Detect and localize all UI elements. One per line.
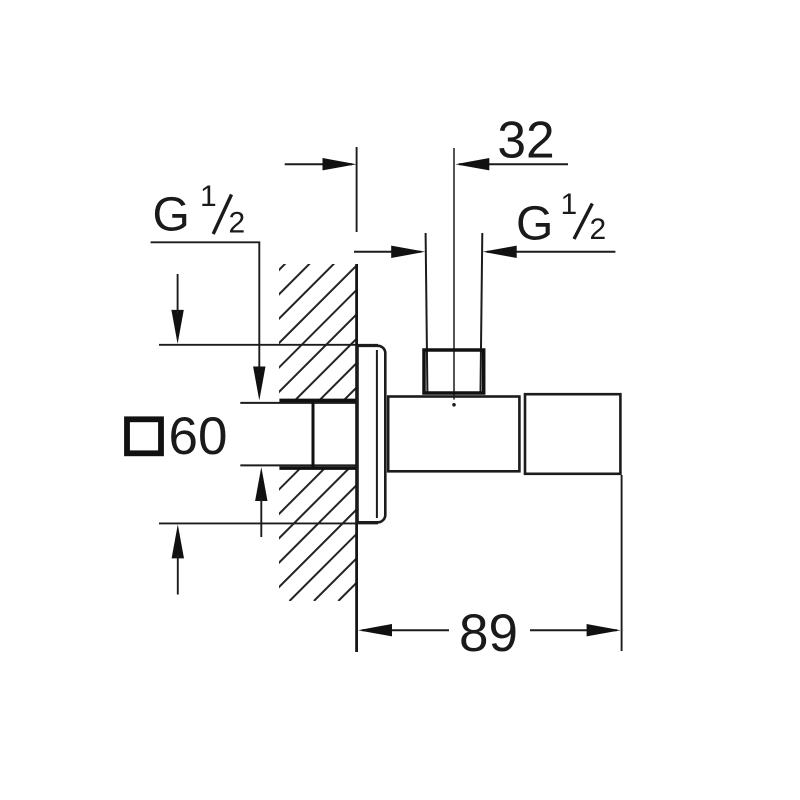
dimension 89 left arrow [358,624,392,636]
dimension 60 bottom arrow (up) [172,524,184,558]
wall opening bottom edge [279,467,357,470]
dimension 60 top arrow shaft [177,274,179,313]
square symbol [127,419,161,453]
escutcheon inner contour line [376,350,378,518]
wall opening top edge [279,399,357,402]
dimension 89 right arrow [587,624,621,636]
dimension 60 bottom arrow shaft [177,555,179,595]
wall hatch [0,263,676,601]
dimension 89 line left part [362,629,449,631]
dimension G1/2 right left arrow [391,246,425,258]
svg-text:32: 32 [497,111,554,169]
supply pipe bottom edge [240,464,356,466]
wall face line [355,264,358,652]
union nut [424,350,484,393]
dimension 60 extension line bottom [159,522,378,524]
G1/2 left label slash [213,195,231,235]
inlet connector left edge [312,401,315,467]
G1/2 left leader arrow (down) [253,367,265,401]
inlet pipe left edge [426,233,428,392]
dimension 32 right arrow [455,158,489,170]
svg-text:89: 89 [459,604,518,663]
outlet piece [525,394,620,474]
svg-text:G: G [516,197,553,250]
G1/2 left leader horizontal [151,241,261,243]
dimension 32 extension line [356,147,358,232]
dimension 89 line right part [530,629,617,631]
dimension G1/2 right line right part [487,251,615,253]
svg-text:2: 2 [229,207,246,240]
svg-text:1: 1 [200,180,217,213]
G1/2 left leader vertical [258,242,260,370]
svg-text:G: G [153,189,190,242]
valve body [388,397,519,472]
svg-text:1: 1 [561,188,578,221]
escutcheon [358,346,386,523]
pipe bottom arrow (up) [255,467,267,501]
dimension G1/2 right line left part [354,251,421,253]
svg-text:60: 60 [169,407,228,466]
supply pipe top edge [240,402,356,404]
inlet pipe right edge [481,233,483,392]
dimension 32 left arrow [323,158,357,170]
dimension 32 left line [285,163,352,165]
dimension 89 extension line right [621,475,623,651]
dimension 60 extension line top [159,344,378,346]
dimension 60 top arrow (down) [171,310,183,344]
svg-text:2: 2 [590,213,607,246]
centerline dot [452,403,456,407]
dimension 32 right line [459,163,568,165]
dimension G1/2 right right arrow [483,246,517,258]
G1/2 right label slash [574,204,592,240]
centerline [453,148,455,400]
pipe bottom arrow shaft [260,498,262,537]
